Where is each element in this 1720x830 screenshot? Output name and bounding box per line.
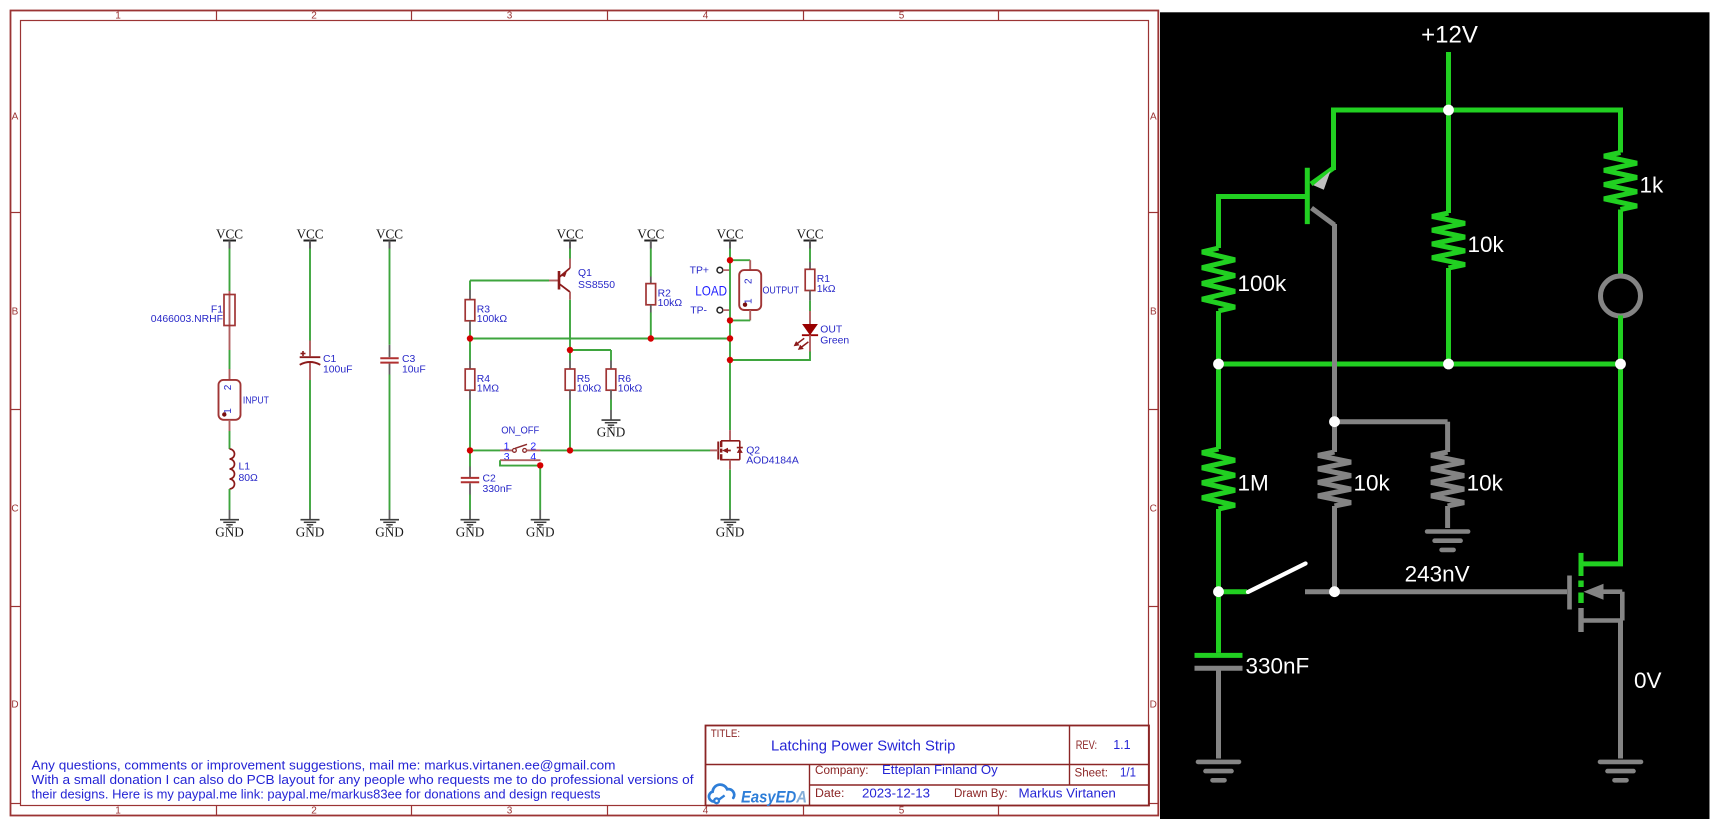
pin R6 pin 2 bbox=[610, 390, 612, 399]
ground (divider ground) bbox=[1427, 532, 1468, 550]
svg-text:100uF: 100uF bbox=[323, 364, 352, 375]
svg-text:1/1: 1/1 bbox=[1120, 765, 1136, 780]
wire node to R5 bbox=[569, 350, 571, 361]
wire LED to node bbox=[730, 352, 810, 361]
transistor Q2 AOD4184A NMOS bbox=[718, 430, 799, 470]
ruler column ticks top bbox=[217, 11, 999, 816]
note text line 2 bbox=[32, 773, 695, 787]
wire gate wire bbox=[1305, 589, 1567, 594]
junction TP+ node bbox=[727, 257, 733, 263]
svg-text:LOAD: LOAD bbox=[695, 284, 727, 299]
resistor R5 10k&#937; bbox=[565, 369, 601, 395]
junction bus right bbox=[727, 335, 733, 341]
wire 10k B to ground bbox=[1445, 506, 1450, 528]
wire VCC to F1 bbox=[229, 249, 231, 292]
ruler row letters bbox=[11, 112, 1157, 711]
power VCC (R1 column) bbox=[796, 227, 823, 249]
svg-text:Sheet:: Sheet: bbox=[1075, 767, 1108, 779]
svg-text:With a small donation I can al: With a small donation I can also do PCB … bbox=[32, 773, 695, 787]
label title block Date bbox=[815, 788, 844, 800]
svg-text:C: C bbox=[11, 504, 18, 515]
svg-text:243nV: 243nV bbox=[1405, 562, 1470, 587]
ground GND (C1 column) bbox=[296, 520, 325, 540]
svg-text:L1: L1 bbox=[239, 461, 251, 472]
svg-text:INPUT: INPUT bbox=[243, 396, 270, 407]
wire VCC to R1 bbox=[809, 249, 811, 263]
svg-text:1.1: 1.1 bbox=[1113, 737, 1130, 752]
junction LED node bbox=[727, 357, 733, 363]
pin R6 pin 1 bbox=[610, 361, 612, 370]
wire switch to GND bbox=[539, 466, 541, 510]
pin R4 pin 1 bbox=[469, 361, 471, 370]
wire base to 100k bbox=[1216, 194, 1221, 248]
pin GND stub switch bbox=[539, 510, 541, 520]
capacitor C1 100uF polarized bbox=[300, 341, 353, 381]
wire main bus R3-R2-load node bbox=[470, 338, 730, 340]
svg-text:100k: 100k bbox=[1238, 271, 1288, 296]
ground (FET ground) bbox=[1600, 762, 1641, 780]
label net label LOAD bbox=[695, 284, 727, 299]
resistor 10k (R 10k gray A) bbox=[1318, 452, 1391, 506]
resistor R4 1M&#937; bbox=[465, 369, 499, 395]
wire rail to 1M bbox=[1216, 364, 1221, 449]
wire Q1 base wire bbox=[470, 280, 549, 282]
svg-text:1: 1 bbox=[115, 806, 121, 817]
svg-text:GND: GND bbox=[215, 524, 244, 539]
ground GND (switch column) bbox=[526, 520, 555, 540]
test point TP+ bbox=[690, 266, 730, 277]
pin GND stub Q2 bbox=[729, 510, 731, 520]
svg-text:VCC: VCC bbox=[216, 227, 243, 242]
power VCC (R2 column) bbox=[637, 227, 664, 249]
label title block REV bbox=[1076, 740, 1097, 752]
wire R3 top wire bbox=[469, 281, 471, 291]
wire OUTPUT pin1 to TP- node bbox=[730, 319, 750, 321]
wire 10k A to gate wire bbox=[1332, 506, 1337, 592]
svg-text:Date:: Date: bbox=[815, 788, 844, 800]
junction switch gnd node bbox=[537, 462, 543, 468]
ruler row ticks bbox=[11, 213, 1159, 804]
simulator background bbox=[1160, 12, 1710, 819]
svg-text:100kΩ: 100kΩ bbox=[477, 314, 508, 325]
pin Q1 base pin bbox=[549, 280, 559, 282]
svg-text:C: C bbox=[1150, 504, 1157, 515]
wire FET drain to ground bbox=[1618, 621, 1623, 759]
svg-text:80Ω: 80Ω bbox=[239, 473, 259, 484]
connector OUTPUT (LOAD) bbox=[739, 260, 799, 320]
svg-text:A: A bbox=[1150, 112, 1157, 123]
svg-text:10k: 10k bbox=[1354, 471, 1391, 496]
svg-text:TITLE:: TITLE: bbox=[711, 728, 740, 740]
svg-text:Markus Virtanen: Markus Virtanen bbox=[1019, 785, 1116, 800]
wire VCC to C1 bbox=[309, 249, 311, 341]
pin VCC stub Q1 bbox=[569, 241, 571, 249]
svg-text:2: 2 bbox=[311, 10, 317, 21]
label title block Drawn By bbox=[954, 788, 1008, 800]
wire TP to bus bbox=[729, 320, 731, 338]
svg-text:0466003.NRHF: 0466003.NRHF bbox=[151, 314, 223, 325]
label +12V (supply node) bbox=[1421, 22, 1478, 49]
svg-text:AOD4184A: AOD4184A bbox=[746, 455, 799, 466]
svg-text:10k: 10k bbox=[1467, 471, 1504, 496]
pin GND stub C3 bbox=[389, 510, 391, 520]
svg-text:VCC: VCC bbox=[637, 227, 664, 242]
svg-text:Any questions, comments or imp: Any questions, comments or improvement s… bbox=[32, 758, 616, 772]
pin VCC stub R2 bbox=[650, 241, 652, 249]
transistor PNP (SS8550) bbox=[1307, 168, 1334, 225]
svg-text:ON_OFF: ON_OFF bbox=[501, 426, 539, 437]
svg-text:VCC: VCC bbox=[376, 227, 403, 242]
svg-text:VCC: VCC bbox=[796, 227, 823, 242]
power VCC (F1 column) bbox=[216, 227, 243, 249]
svg-text:Etteplan Finland Oy: Etteplan Finland Oy bbox=[882, 762, 998, 777]
svg-text:TP-: TP- bbox=[690, 306, 707, 317]
wire R2 to bus bbox=[650, 313, 652, 339]
resistor 1k (R 1k) bbox=[1604, 153, 1664, 210]
svg-text:3: 3 bbox=[504, 451, 510, 463]
inductor L1 80&#937; bbox=[230, 449, 259, 489]
transistor PMOS bbox=[1570, 576, 1623, 633]
pin GND stub C1 bbox=[309, 510, 311, 520]
pin GND stub R6 bbox=[610, 410, 612, 420]
ground GND (R6 column) bbox=[597, 420, 626, 440]
svg-text:4: 4 bbox=[703, 10, 709, 21]
wire node to C2 bbox=[469, 450, 471, 466]
wire FET source stub bbox=[1579, 553, 1584, 576]
svg-text:EasyEDA: EasyEDA bbox=[741, 789, 807, 807]
svg-text:GND: GND bbox=[597, 425, 626, 440]
power VCC (Q1 column) bbox=[556, 227, 583, 249]
svg-text:GND: GND bbox=[456, 524, 485, 539]
svg-text:2023-12-13: 2023-12-13 bbox=[862, 785, 930, 800]
svg-text:OUTPUT: OUTPUT bbox=[763, 286, 800, 297]
pin R3 pin 2 bbox=[469, 321, 471, 331]
wire F1 to INPUT bbox=[229, 350, 231, 369]
wire rail to 1k bbox=[1618, 108, 1623, 153]
wire to 10k gray A bbox=[1332, 422, 1337, 452]
wire R5 to switch node bbox=[569, 400, 571, 451]
label title block Company bbox=[815, 765, 869, 777]
label revision value bbox=[1113, 737, 1130, 752]
junction switch node left bbox=[467, 447, 473, 453]
label drawn-by value bbox=[1019, 785, 1116, 800]
wire switch pins 3-4 loop bbox=[500, 460, 540, 465]
ground GND (Q2 column) bbox=[716, 520, 745, 540]
wire 1k to LED bbox=[1618, 210, 1623, 277]
label 243nV (gate voltage) bbox=[1405, 562, 1470, 587]
svg-text:C3: C3 bbox=[402, 354, 416, 365]
label sheet value bbox=[1120, 765, 1136, 780]
svg-text:1MΩ: 1MΩ bbox=[477, 384, 499, 395]
resistor R3 100k&#937; bbox=[465, 300, 507, 326]
wire VCC to C3 bbox=[389, 249, 391, 345]
svg-text:VCC: VCC bbox=[716, 227, 743, 242]
resistor 10k (R 10k mid) bbox=[1432, 213, 1505, 268]
pin R2 pin 2 bbox=[650, 305, 652, 313]
svg-text:VCC: VCC bbox=[296, 227, 323, 242]
pin VCC stub C1 bbox=[309, 241, 311, 249]
pin VCC stub R1 bbox=[809, 241, 811, 249]
svg-text:VCC: VCC bbox=[556, 227, 583, 242]
svg-text:+12V: +12V bbox=[1421, 22, 1478, 49]
switch ON_OFF bbox=[500, 426, 541, 464]
wire R4 to switch node bbox=[469, 400, 471, 451]
wire INPUT to L1 bbox=[229, 431, 231, 449]
pin VCC stub LOAD bbox=[729, 241, 731, 249]
wire Q1 collector to R5 node bbox=[569, 300, 571, 350]
svg-text:10kΩ: 10kΩ bbox=[658, 298, 683, 309]
svg-text:1k: 1k bbox=[1640, 173, 1665, 198]
wire cap to ground bbox=[1216, 668, 1221, 758]
wire switch to cap bbox=[1216, 592, 1221, 653]
label title block Sheet bbox=[1075, 767, 1108, 779]
svg-text:10kΩ: 10kΩ bbox=[618, 384, 643, 395]
wire 100k to bottom rail bbox=[1216, 311, 1221, 364]
svg-text:GND: GND bbox=[716, 524, 745, 539]
wire C3 to GND bbox=[389, 375, 391, 511]
pin R2 pin 1 bbox=[650, 277, 652, 284]
capacitor C2 330nF bbox=[461, 473, 512, 495]
pin R1 pin 1 bbox=[809, 262, 811, 269]
svg-text:TP+: TP+ bbox=[690, 266, 709, 277]
wire collector cross wire bbox=[1335, 419, 1448, 424]
resistor 100k (R 100k) bbox=[1202, 248, 1287, 311]
wire R6 to GND bbox=[610, 400, 612, 411]
power VCC (LOAD column) bbox=[716, 227, 743, 249]
label company value bbox=[882, 762, 998, 777]
ruler column numbers bbox=[115, 10, 905, 816]
test point TP- bbox=[690, 306, 730, 317]
pin R1 pin 2 bbox=[809, 291, 811, 301]
capacitor 330nF bbox=[1195, 654, 1310, 679]
svg-text:1M: 1M bbox=[1238, 471, 1269, 496]
sheet inner border bbox=[21, 21, 1149, 806]
svg-text:4: 4 bbox=[703, 806, 709, 817]
fuse F1 0466003.NRHF bbox=[151, 291, 235, 350]
svg-text:5: 5 bbox=[899, 806, 905, 817]
junction bus mid bbox=[648, 335, 654, 341]
pin Q2 gate pin bbox=[710, 449, 718, 451]
svg-text:2: 2 bbox=[744, 278, 755, 284]
EasyEDA logo bbox=[709, 785, 807, 807]
note text line 1 bbox=[32, 758, 616, 772]
LED OUT Green bbox=[794, 311, 850, 352]
svg-text:1: 1 bbox=[115, 10, 121, 21]
wire LED to bottom rail bbox=[1618, 316, 1623, 365]
pin R5 pin 1 bbox=[569, 361, 571, 370]
svg-text:4: 4 bbox=[530, 451, 536, 463]
wire 10k to bottom rail bbox=[1446, 268, 1451, 364]
resistor 10k (R 10k gray B) bbox=[1431, 452, 1504, 506]
wire TP vertical bbox=[729, 260, 731, 320]
svg-text:their designs. Here is my payp: their designs. Here is my paypal.me link… bbox=[32, 788, 601, 802]
svg-text:C2: C2 bbox=[483, 473, 497, 484]
label title block TITLE bbox=[711, 728, 740, 740]
pin GND stub F1 col bbox=[229, 510, 231, 520]
ground GND (C3 column) bbox=[375, 520, 404, 540]
junction top rail node bbox=[1443, 105, 1454, 116]
svg-text:B: B bbox=[12, 307, 19, 318]
ground (cap ground) bbox=[1198, 762, 1239, 780]
ground GND (C2 column) bbox=[456, 520, 485, 540]
svg-text:10k: 10k bbox=[1468, 232, 1505, 257]
wire bus to R4 bbox=[469, 339, 471, 361]
resistor 1M (R 1M) bbox=[1202, 449, 1269, 509]
wire rail to 10k bbox=[1446, 110, 1451, 213]
junction switch node mid bbox=[567, 447, 573, 453]
junction gate node bbox=[1329, 586, 1340, 597]
wire top rail bbox=[1331, 108, 1621, 113]
junction TP- node bbox=[727, 317, 733, 323]
note text line 3 bbox=[32, 788, 601, 802]
wire R3 to bus bbox=[469, 331, 471, 339]
svg-text:Company:: Company: bbox=[815, 765, 869, 777]
svg-text:2: 2 bbox=[311, 806, 317, 817]
svg-text:Drawn By:: Drawn By: bbox=[954, 788, 1008, 800]
svg-text:C1: C1 bbox=[323, 354, 337, 365]
wire collector drop bbox=[1332, 224, 1337, 422]
wire node to switch bbox=[470, 449, 500, 451]
wire Q2 source to GND bbox=[729, 470, 731, 510]
svg-text:REV:: REV: bbox=[1076, 740, 1097, 752]
wire emitter rail bbox=[1219, 362, 1621, 367]
wire 1M to switch bbox=[1216, 509, 1221, 592]
wire switch to Q2 gate bbox=[541, 449, 711, 451]
wire R6 top wire bbox=[610, 350, 612, 361]
label 0V (drain node) bbox=[1634, 668, 1662, 693]
sheet outer border bbox=[11, 11, 1159, 816]
junction rail node left bbox=[1213, 359, 1224, 370]
switch (open) bbox=[1219, 564, 1306, 593]
pin C2 pin 2 bbox=[469, 483, 471, 494]
wire to OUTPUT pin 2 bbox=[730, 259, 750, 261]
wire VCC to TP node bbox=[729, 249, 731, 261]
wire to 10k gray B bbox=[1445, 422, 1450, 452]
wire C1 to GND bbox=[309, 380, 311, 510]
pin GND stub C2 bbox=[469, 510, 471, 520]
svg-text:D: D bbox=[11, 700, 18, 711]
svg-text:5: 5 bbox=[899, 10, 905, 21]
wire node to Q2 drain bbox=[729, 360, 731, 430]
junction rail node right bbox=[1615, 359, 1626, 370]
pin C2 pin 1 bbox=[469, 467, 471, 478]
wire bus to LED node bbox=[729, 339, 731, 361]
svg-text:10kΩ: 10kΩ bbox=[577, 384, 602, 395]
svg-text:330nF: 330nF bbox=[1246, 654, 1310, 679]
resistor R6 10k&#937; bbox=[606, 369, 642, 395]
resistor R2 10k&#937; bbox=[646, 284, 682, 310]
svg-text:A: A bbox=[12, 112, 19, 123]
svg-text:GND: GND bbox=[296, 524, 325, 539]
svg-text:SS8550: SS8550 bbox=[578, 280, 615, 291]
wire base wire bbox=[1219, 194, 1306, 199]
junction rail node mid bbox=[1443, 359, 1454, 370]
wire L1 to GND bbox=[229, 489, 231, 510]
svg-text:0V: 0V bbox=[1634, 668, 1662, 693]
svg-text:GND: GND bbox=[375, 524, 404, 539]
resistor R1 1k&#937; bbox=[805, 269, 836, 295]
label sheet title bbox=[771, 739, 955, 755]
svg-text:3: 3 bbox=[507, 10, 513, 21]
wire rail to Q emitter bbox=[1331, 108, 1336, 171]
wire VCC to R2 bbox=[650, 249, 652, 277]
svg-text:2: 2 bbox=[223, 384, 234, 390]
svg-text:10uF: 10uF bbox=[402, 364, 426, 375]
junction collector node bbox=[1329, 416, 1340, 427]
wire collector to R6 bbox=[570, 349, 611, 351]
wire supply lead bbox=[1446, 52, 1451, 110]
LED (off) bbox=[1601, 276, 1641, 316]
pin VCC stub C3 bbox=[389, 241, 391, 249]
pin VCC stub F1 col bbox=[229, 241, 231, 249]
junction switch node bbox=[1213, 586, 1224, 597]
svg-text:B: B bbox=[1150, 307, 1157, 318]
power VCC (C3 column) bbox=[376, 227, 403, 249]
svg-text:330nF: 330nF bbox=[483, 484, 512, 495]
svg-text:3: 3 bbox=[507, 806, 513, 817]
capacitor C3 10uF bbox=[380, 345, 425, 376]
ground GND (input column) bbox=[215, 520, 244, 540]
power VCC (C1 column) bbox=[296, 227, 323, 249]
wire C2 to GND bbox=[469, 495, 471, 511]
svg-text:Q1: Q1 bbox=[578, 268, 592, 279]
junction collector node bbox=[567, 347, 573, 353]
connector INPUT bbox=[219, 369, 270, 431]
label date value bbox=[862, 785, 930, 800]
pin R3 pin 1 bbox=[469, 290, 471, 300]
svg-text:GND: GND bbox=[526, 524, 555, 539]
svg-text:Latching Power Switch Strip: Latching Power Switch Strip bbox=[771, 739, 955, 755]
svg-text:D: D bbox=[1150, 700, 1157, 711]
svg-text:Green: Green bbox=[820, 335, 849, 346]
title block outline bbox=[706, 726, 1150, 806]
wire R1 to LED bbox=[809, 301, 811, 311]
svg-text:OUT: OUT bbox=[820, 325, 843, 336]
transistor Q1 SS8550 PNP bbox=[559, 259, 615, 300]
wire VCC to Q1 emitter bbox=[569, 249, 571, 259]
pin R5 pin 2 bbox=[569, 390, 571, 399]
wire LED rail to FET source bbox=[1581, 364, 1621, 564]
svg-text:1kΩ: 1kΩ bbox=[817, 284, 836, 295]
pin R4 pin 2 bbox=[469, 390, 471, 399]
junction bus left bbox=[467, 335, 473, 341]
